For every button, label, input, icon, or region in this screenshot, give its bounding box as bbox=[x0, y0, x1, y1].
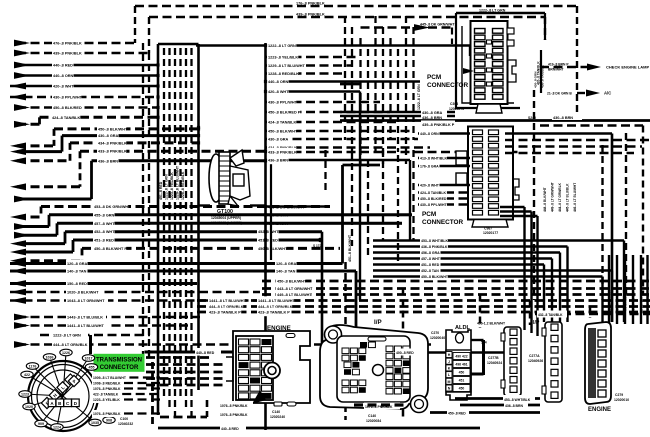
wire engine vertical 433-.8 GRN bbox=[646, 255, 648, 324]
wire 150-.8 RED bbox=[10, 282, 197, 285]
svg-text:176-.8 PNK/BLK: 176-.8 PNK/BLK bbox=[296, 2, 325, 6]
splice S172 bbox=[318, 238, 322, 242]
wire engine vertical 441-.8 RED B bbox=[624, 255, 626, 324]
svg-text:12020010: 12020010 bbox=[614, 398, 629, 402]
maze solid corner 1 bbox=[341, 165, 344, 264]
bus wire v2 bbox=[168, 48, 170, 407]
wire 457-.8 WHT lower bbox=[373, 257, 552, 259]
svg-text:424-.8 TAN/BLK: 424-.8 TAN/BLK bbox=[52, 116, 80, 120]
connector I/P block bbox=[320, 325, 428, 409]
wire vertical right drop 545 bbox=[544, 17, 546, 40]
svg-text:1017: 1017 bbox=[85, 357, 93, 361]
wire check engine lamp bbox=[540, 66, 588, 68]
bus ladder right rail bbox=[197, 44, 200, 390]
svg-text:449-.8 LT GRN/WHT: 449-.8 LT GRN/WHT bbox=[551, 182, 555, 212]
wire 445-.8 DK GRN/WHT bbox=[361, 26, 453, 29]
wire 430-.8 GRA bbox=[17, 150, 62, 153]
wire 424-.8 TAN/BLK mid bbox=[266, 121, 401, 124]
svg-text:450-.8 WHT/BLK: 450-.8 WHT/BLK bbox=[616, 288, 620, 312]
maze vertical x398 bbox=[397, 49, 399, 152]
bus second vertical bbox=[270, 150, 272, 260]
svg-text:451-.8 RED: 451-.8 RED bbox=[159, 181, 163, 200]
svg-text:423-.8 TAN/BLK P: 423-.8 TAN/BLK P bbox=[258, 311, 290, 315]
svg-text:420-.8 WHT: 420-.8 WHT bbox=[420, 184, 440, 188]
svg-text:440-.8 ORN: 440-.8 ORN bbox=[420, 132, 439, 136]
transmission spokes bbox=[50, 357, 64, 396]
wire 453-.8 WHT/BLK bottom bbox=[455, 397, 540, 400]
maze vertical x352 bbox=[351, 27, 353, 152]
wire 455 mid ext bbox=[266, 214, 413, 217]
wire 443-.8 LT GRN/WHT bundle bbox=[262, 287, 650, 290]
svg-text:1223-.8 YEL/BLK: 1223-.8 YEL/BLK bbox=[170, 172, 174, 200]
svg-text:420-.8 WHT: 420-.8 WHT bbox=[53, 85, 74, 89]
svg-text:C100: C100 bbox=[120, 417, 128, 421]
wire 140-.8 TAN bbox=[10, 270, 356, 273]
svg-text:N: N bbox=[448, 387, 451, 391]
wire 440-.8 ORN bbox=[17, 74, 158, 77]
wire 436-.8 BRN pcm bbox=[340, 115, 455, 118]
bundle drop x345 bbox=[344, 262, 347, 420]
wire 452-.8 WHT bbox=[17, 242, 65, 245]
wire 430-.8 PPL/WHT pcm2 bbox=[418, 203, 470, 205]
svg-text:451-.8 RED: 451-.8 RED bbox=[258, 239, 278, 243]
wire 450-.8 BLK/WHT lower bbox=[373, 275, 603, 277]
svg-text:C987: C987 bbox=[484, 227, 492, 231]
wire engine vertical 439-.8 PNK/BLK F bbox=[632, 255, 634, 324]
maze vertical x390.5 bbox=[389, 38, 391, 140]
svg-text:C140: C140 bbox=[368, 414, 376, 418]
svg-text:I/P: I/P bbox=[533, 320, 540, 326]
wire 1222-.8 LT GRN bottom bbox=[40, 334, 150, 337]
wire right vert x626 bbox=[625, 133, 627, 295]
svg-text:453-.8 WHT/BLK: 453-.8 WHT/BLK bbox=[504, 398, 531, 402]
wire 436-.8 BRN bbox=[17, 198, 92, 201]
svg-text:450: 450 bbox=[459, 387, 465, 391]
wire 1222 corner bbox=[469, 46, 471, 57]
transmission pin ladder diagonal bbox=[41, 397, 52, 408]
maze vertical low x413.5 bbox=[412, 150, 414, 240]
svg-text:C140: C140 bbox=[272, 410, 280, 414]
svg-text:450-.8 BLK/WHT P: 450-.8 BLK/WHT P bbox=[94, 247, 127, 251]
svg-text:496 461: 496 461 bbox=[455, 363, 467, 367]
label 1076 PNK/BLK engine 1 bbox=[219, 401, 253, 408]
svg-text:12020240: 12020240 bbox=[270, 415, 285, 419]
maze vertical x368 bbox=[367, 49, 369, 140]
svg-text:476-.8 PNK/BLK: 476-.8 PNK/BLK bbox=[53, 42, 82, 46]
svg-text:1229-.8 LT BLU/WHT: 1229-.8 LT BLU/WHT bbox=[176, 165, 180, 200]
bus wire v1 bbox=[163, 48, 165, 398]
wire pcm2 topright 0 bbox=[505, 139, 650, 141]
svg-text:1036: 1036 bbox=[46, 356, 54, 360]
wire 450-.8 RED bottom bbox=[430, 411, 540, 414]
svg-text:496-1.2 BLK/WHT: 496-1.2 BLK/WHT bbox=[477, 322, 506, 326]
maze vertical x360.5 bbox=[359, 38, 361, 164]
wire 1443-.8 LT BLU/BLK bbox=[17, 316, 200, 319]
svg-text:422: 422 bbox=[24, 373, 30, 377]
wire 1222-.8 LT GRN mid bbox=[196, 44, 470, 47]
bundle drop x590 bbox=[589, 307, 592, 319]
wire 176-.8 PNK/BLK top bbox=[135, 5, 577, 8]
label 1076 ip bbox=[364, 403, 400, 410]
wire GT100 left stub bbox=[199, 204, 211, 206]
wire engine vertical 423-.8 TAN/BLK bbox=[608, 255, 610, 324]
svg-text:450-.8 BLK/RED: 450-.8 BLK/RED bbox=[420, 197, 447, 201]
wire 451-.8 RED bbox=[17, 251, 73, 254]
svg-text:1222-.8 LT GRN: 1222-.8 LT GRN bbox=[268, 44, 296, 48]
wire 455-.8 GRN bbox=[17, 225, 49, 228]
svg-text:419-.8 BRN P: 419-.8 BRN P bbox=[548, 63, 569, 67]
wire 423-.8 TAN/BLK P bundle bbox=[197, 311, 650, 314]
svg-text:430-.8 BRN: 430-.8 BRN bbox=[553, 116, 573, 120]
svg-text:1076-.8 PNK/BLK: 1076-.8 PNK/BLK bbox=[93, 387, 121, 391]
wire 440-.8 ORN mid bbox=[266, 80, 421, 83]
svg-text:451-.8 RED: 451-.8 RED bbox=[94, 239, 114, 243]
svg-text:450-.8 BLK/RED P: 450-.8 BLK/RED P bbox=[268, 111, 301, 115]
wire 430-.8 PPL/WHT bbox=[10, 96, 158, 99]
label 1076 PNK/BLK engine 2 bbox=[219, 410, 253, 417]
maze vertical low x352 bbox=[351, 152, 353, 246]
bus ladder top bbox=[158, 43, 199, 46]
svg-text:441-.8 RED B: 441-.8 RED B bbox=[624, 292, 628, 312]
svg-text:J: J bbox=[448, 360, 450, 364]
svg-text:GT100: GT100 bbox=[217, 209, 233, 215]
wire 176-.8 GRA pcm2 bbox=[418, 165, 470, 167]
svg-text:433-.8 PNK/BLK: 433-.8 PNK/BLK bbox=[268, 151, 297, 155]
wire 1229-.8 LT BLU/WHT mid bbox=[266, 64, 353, 67]
wire pcm2 topright 2 bbox=[505, 152, 634, 154]
svg-text:420-.8 TAN/BLK: 420-.8 TAN/BLK bbox=[537, 61, 541, 85]
wire vertical right drop 577 bbox=[576, 6, 578, 120]
svg-text:PCM: PCM bbox=[427, 74, 441, 81]
svg-text:451-.8 RED: 451-.8 RED bbox=[421, 263, 440, 267]
svg-text:450-.8 BLK/WHT: 450-.8 BLK/WHT bbox=[268, 130, 298, 134]
svg-text:12020276: 12020276 bbox=[449, 107, 464, 111]
wire 436-.8 BRN bottom bbox=[460, 404, 540, 407]
svg-text:1441-.8 LT BLU/WHT: 1441-.8 LT BLU/WHT bbox=[67, 324, 105, 328]
wire thick into green box bbox=[89, 335, 92, 354]
svg-text:436-.8 BRN: 436-.8 BRN bbox=[268, 159, 288, 163]
svg-text:434-.8 GRY: 434-.8 GRY bbox=[640, 296, 644, 312]
svg-text:I/P: I/P bbox=[374, 319, 382, 326]
svg-text:436-.8 BRN: 436-.8 BRN bbox=[505, 404, 523, 408]
svg-text:120-.8 GRA: 120-.8 GRA bbox=[276, 262, 297, 266]
svg-text:452-.8 WHT: 452-.8 WHT bbox=[94, 230, 115, 234]
svg-text:439-.8 PNK/BLK F: 439-.8 PNK/BLK F bbox=[632, 286, 636, 312]
svg-text:1443-.8 LT BLU/BLK: 1443-.8 LT BLU/BLK bbox=[67, 316, 103, 320]
wire 120-.8 GRA bbox=[10, 262, 343, 265]
bus wire v5 bbox=[185, 48, 187, 407]
connector transmission circle bbox=[28, 361, 98, 431]
bus wire v3 bbox=[174, 48, 176, 416]
bundle drop x480 bbox=[479, 295, 482, 329]
svg-text:450: 450 bbox=[459, 371, 465, 375]
svg-text:439-.8 PNK/BLK: 439-.8 PNK/BLK bbox=[296, 13, 325, 17]
svg-text:422-.8 TAN/BLK: 422-.8 TAN/BLK bbox=[93, 393, 119, 397]
bus wire v150 bbox=[148, 53, 150, 360]
svg-text:445-.8 DK GRN/WHT: 445-.8 DK GRN/WHT bbox=[420, 23, 455, 27]
svg-text:457-.8 WHT: 457-.8 WHT bbox=[94, 222, 115, 226]
wire vertical left drop 1 bbox=[134, 6, 136, 43]
svg-text:457-.8 WHT: 457-.8 WHT bbox=[421, 257, 441, 261]
wire 420-.8 WHT pcm2 bbox=[418, 184, 470, 186]
svg-text:12040232: 12040232 bbox=[118, 422, 133, 426]
svg-text:12045005 (LOWER): 12045005 (LOWER) bbox=[211, 221, 242, 225]
svg-text:455: 455 bbox=[89, 366, 95, 370]
wire 430-.8 GRA pcm bbox=[340, 111, 455, 114]
maze vertical x406 bbox=[405, 16, 407, 164]
maze vertical x375.5 bbox=[374, 16, 376, 152]
svg-text:1043-.8 LT GRN/WHT: 1043-.8 LT GRN/WHT bbox=[67, 299, 105, 303]
svg-text:430-.8 GRA: 430-.8 GRA bbox=[98, 134, 119, 138]
svg-text:450-.8 BLK/WHT: 450-.8 BLK/WHT bbox=[277, 280, 307, 284]
highlight transmission connector bbox=[94, 354, 145, 372]
wire engine vertical 434-.8 GRY bbox=[640, 255, 642, 324]
svg-text:444-.8 LT GRN/BLK: 444-.8 LT GRN/BLK bbox=[558, 182, 562, 212]
svg-text:12020177: 12020177 bbox=[483, 231, 498, 235]
svg-text:1223-.8 YEL/BLK: 1223-.8 YEL/BLK bbox=[93, 398, 120, 402]
connector PCM1 body bbox=[456, 13, 520, 108]
svg-text:1229-.8 LT BLU/WHT: 1229-.8 LT BLU/WHT bbox=[268, 64, 306, 68]
svg-text:440-.8 ORN: 440-.8 ORN bbox=[268, 80, 289, 84]
svg-text:CONNECTOR: CONNECTOR bbox=[427, 82, 468, 89]
wire 450-.8 BLK/RED bbox=[17, 106, 158, 109]
svg-text:C270: C270 bbox=[431, 331, 439, 335]
wire 1020-.8 BLK/WHT bbox=[10, 291, 260, 294]
svg-text:ENGINE: ENGINE bbox=[267, 325, 291, 332]
ip bottom thick dashes bbox=[354, 403, 404, 406]
svg-text:440-.8 RED: 440-.8 RED bbox=[53, 64, 73, 68]
svg-text:12040926: 12040926 bbox=[528, 359, 543, 363]
wire 450-.8 BLK/WHT mid bbox=[266, 130, 411, 133]
wire 434-.8 PNK/BLK mid bbox=[266, 146, 431, 149]
svg-text:457-.8 WHT: 457-.8 WHT bbox=[268, 222, 289, 226]
svg-text:453-.8 DK GRN/WHT: 453-.8 DK GRN/WHT bbox=[94, 205, 131, 209]
svg-text:430-.8 PPL/WHT: 430-.8 PPL/WHT bbox=[268, 101, 298, 105]
bus wire v4 bbox=[179, 48, 181, 398]
connector C277B bbox=[504, 327, 521, 396]
wire 439-.8 PNK/BLK bbox=[17, 52, 149, 55]
wire 420-.8 WHT bbox=[10, 85, 158, 88]
wire 424-.8 TAN/BLK bbox=[17, 123, 40, 126]
bundle drop x403 bbox=[402, 289, 405, 421]
wires into engine left bbox=[146, 363, 226, 366]
wire 420-.8 WHT mid bbox=[266, 90, 361, 93]
wire 1441-.8 LT BLU/WHT bbox=[17, 324, 190, 327]
wire pcm2 topright 1 bbox=[505, 145, 642, 147]
wire right vert x643 bbox=[642, 126, 644, 296]
wire 440-.8 ORN pcm2 bbox=[418, 132, 470, 134]
wire 440-.8 RED to engine bbox=[145, 351, 245, 354]
svg-text:1076-.8 PNK/BLK: 1076-.8 PNK/BLK bbox=[220, 404, 248, 408]
wire 436 BRN corner bbox=[409, 160, 411, 240]
svg-text:909: 909 bbox=[38, 422, 44, 426]
maze vertical x325 bbox=[324, 150, 326, 192]
transmission oval callouts bbox=[43, 354, 55, 361]
wire 436-.8 PNK/BLK lower bbox=[373, 245, 568, 247]
svg-text:C277B: C277B bbox=[488, 356, 499, 360]
svg-text:450-.8 RED: 450-.8 RED bbox=[448, 412, 466, 416]
svg-text:450-.8 BLK/WHT: 450-.8 BLK/WHT bbox=[258, 247, 288, 251]
svg-text:H: H bbox=[448, 353, 451, 357]
wire 453-.8 WHT/BLK lower bbox=[373, 239, 624, 241]
svg-text:CONNECTOR: CONNECTOR bbox=[422, 219, 463, 226]
svg-text:12020084: 12020084 bbox=[366, 419, 381, 423]
wire aldl thick L bbox=[482, 340, 485, 375]
wire 4xx TAN/BLK bottomright bbox=[535, 313, 650, 315]
svg-text:453-.8 DK GRN/WHT: 453-.8 DK GRN/WHT bbox=[268, 206, 305, 210]
svg-text:413-.8 WHT/BLK: 413-.8 WHT/BLK bbox=[420, 157, 448, 161]
wire 1441-.8 LT BLU/WHT bundle bbox=[197, 299, 650, 302]
junction dots bbox=[156, 63, 159, 66]
wire 433-.8 PNK/BLK mid bbox=[266, 151, 521, 154]
svg-text:430-.8 PPL/WHT: 430-.8 PPL/WHT bbox=[53, 96, 83, 100]
svg-text:439-.8 PNK/BLK P: 439-.8 PNK/BLK P bbox=[422, 123, 455, 127]
svg-text:1020: 1020 bbox=[25, 405, 33, 409]
wire 1223-.8 YEL/BLK mid bbox=[266, 56, 361, 59]
svg-text:908: 908 bbox=[106, 419, 112, 423]
bus ladder left rail bbox=[157, 44, 160, 415]
svg-text:430-.8 PPL/WHT: 430-.8 PPL/WHT bbox=[420, 203, 448, 207]
svg-text:455-.8 GRN: 455-.8 GRN bbox=[94, 213, 115, 217]
wire A/C bbox=[577, 92, 585, 94]
svg-text:S 172: S 172 bbox=[313, 244, 322, 248]
wire GT100 right stub bbox=[250, 204, 266, 206]
svg-text:433-.8 GRN: 433-.8 GRN bbox=[646, 296, 650, 312]
wire 450-.8 BLK/RED P mid bbox=[266, 111, 391, 114]
maze vertical low x398 bbox=[397, 155, 399, 262]
svg-text:1076-.8 PNK/BLK: 1076-.8 PNK/BLK bbox=[220, 413, 248, 417]
svg-text:436-.8 BRN: 436-.8 BRN bbox=[98, 159, 118, 163]
svg-text:434-.8 PNK/BLK: 434-.8 PNK/BLK bbox=[98, 141, 127, 145]
connector ENGINE block bbox=[233, 331, 310, 403]
wire 456-.8 GRA lower bbox=[373, 251, 560, 253]
wire 457 mid ext bbox=[266, 222, 403, 225]
svg-text:432-.8 TAN/BLK: 432-.8 TAN/BLK bbox=[538, 313, 563, 317]
wire 444-.8 LT GRN/BLK bundle bbox=[197, 305, 650, 308]
wire y357 dashed row bbox=[146, 356, 210, 359]
wire 439-.8 PNK/BLK P bbox=[340, 119, 650, 122]
svg-text:453-.8 WHT/BLK: 453-.8 WHT/BLK bbox=[421, 239, 449, 243]
svg-text:12045004 (UPPER): 12045004 (UPPER) bbox=[211, 216, 241, 220]
maze vertical low x383 bbox=[382, 150, 384, 240]
svg-text:440-.8 ORN: 440-.8 ORN bbox=[53, 74, 74, 78]
wire right vert x602 bbox=[601, 145, 603, 300]
svg-text:440-.8 RED: 440-.8 RED bbox=[221, 427, 239, 431]
wire 434-.8 PNK/BLK bbox=[17, 159, 70, 162]
connector C277A bbox=[545, 322, 562, 402]
svg-text:1222-.8 LT GRN: 1222-.8 LT GRN bbox=[53, 334, 81, 338]
svg-text:1228-.8 RED/BLK: 1228-.8 RED/BLK bbox=[181, 171, 185, 200]
svg-text:150-.8 RED: 150-.8 RED bbox=[67, 282, 87, 286]
svg-text:450-.8 BLK/RED: 450-.8 BLK/RED bbox=[53, 106, 82, 110]
maze vertical x413.5 bbox=[412, 27, 414, 140]
wire engine vertical 450-.8 WHT/BLK bbox=[616, 255, 618, 324]
svg-text:448-.8 BLK/WHT: 448-.8 BLK/WHT bbox=[543, 187, 547, 212]
svg-text:423-.8 TAN/BLK P: 423-.8 TAN/BLK P bbox=[209, 311, 241, 315]
svg-text:1035: 1035 bbox=[91, 421, 99, 425]
wire 1222 top loop pcm1 bbox=[456, 12, 545, 14]
svg-text:444-.8 LT GRN/BLK: 444-.8 LT GRN/BLK bbox=[53, 343, 88, 347]
svg-text:CHECK ENGINE LAMP: CHECK ENGINE LAMP bbox=[606, 65, 649, 70]
svg-text:450-.8 BLK/WHT: 450-.8 BLK/WHT bbox=[421, 275, 449, 279]
wire 450-.8 BLK/WHT bbox=[17, 144, 54, 147]
wire 430-.8 GRA mid bbox=[266, 138, 419, 141]
svg-text:BRN/WHT: BRN/WHT bbox=[548, 68, 564, 72]
svg-text:ENGINE: ENGINE bbox=[588, 407, 611, 413]
svg-text:440-.8 RED: 440-.8 RED bbox=[196, 351, 215, 355]
svg-text:1223: 1223 bbox=[21, 393, 29, 397]
transmission wire labels bbox=[92, 374, 126, 381]
svg-text:423-.8 TAN/BLK: 423-.8 TAN/BLK bbox=[608, 289, 612, 312]
wire 450-.8 BLK/WHT bundle bbox=[262, 280, 650, 283]
wire 449-.8 LT BLU/WHT bundle bbox=[262, 293, 650, 296]
svg-text:436-.8 PNK/BLK: 436-.8 PNK/BLK bbox=[421, 245, 448, 249]
maze vertical low x368 bbox=[367, 160, 369, 258]
svg-text:1176: 1176 bbox=[29, 365, 37, 369]
wire 1228-.8 RED/BLK mid bbox=[266, 72, 346, 75]
wire 440-.8 RED bbox=[17, 64, 158, 67]
svg-text:M: M bbox=[448, 380, 451, 384]
svg-text:1226: 1226 bbox=[62, 351, 70, 355]
connector ENGINE right bbox=[585, 322, 611, 404]
wire pcm2 topright solid bbox=[505, 132, 612, 135]
svg-text:455-.8 GRN: 455-.8 GRN bbox=[268, 214, 289, 218]
svg-text:1020-.8 BLK/WHT: 1020-.8 BLK/WHT bbox=[67, 291, 99, 295]
wire 444-.8 LT GRN/BLK bbox=[17, 343, 435, 346]
connector ALDL bbox=[446, 330, 471, 400]
svg-text:450-.8 BLK/WHT: 450-.8 BLK/WHT bbox=[98, 127, 128, 131]
svg-text:21-.8 DK GRN B: 21-.8 DK GRN B bbox=[547, 92, 572, 96]
svg-text:1228-.8 RED/BLK: 1228-.8 RED/BLK bbox=[268, 72, 299, 76]
svg-text:1222-.8 LT GRN: 1222-.8 LT GRN bbox=[417, 84, 421, 110]
svg-text:K: K bbox=[448, 367, 451, 371]
maze solid corner 3 bbox=[355, 271, 358, 328]
wire 400-.8 RED ip bbox=[428, 351, 446, 354]
wire arrow into PCM1 bbox=[463, 68, 474, 74]
bus corner bottom to 440RED bbox=[151, 362, 154, 428]
wire arrow up into engine bbox=[252, 390, 266, 404]
transmission pin row ABCD bbox=[48, 399, 56, 407]
bus main vertical bbox=[264, 43, 267, 430]
wire 457-.8 WHT bbox=[17, 234, 57, 237]
wire 420 WHT corner bbox=[359, 92, 361, 301]
wire 413-.8 WHT/BLK pcm2 bbox=[418, 157, 470, 159]
svg-text:430-.8 GRA: 430-.8 GRA bbox=[268, 138, 289, 142]
svg-text:120-.8 GRA: 120-.8 GRA bbox=[67, 262, 88, 266]
wire 430-.8 PPL/WHT mid bbox=[266, 101, 381, 104]
wire 450-.8 BLK/WHT P bbox=[17, 259, 82, 262]
wire y417 dashed + drop bbox=[160, 416, 207, 419]
wire dashed vertical x534 bbox=[533, 90, 535, 300]
svg-text:140-.8 TAN: 140-.8 TAN bbox=[67, 270, 87, 274]
connector GT100 symbol bbox=[209, 154, 223, 202]
wire 476-.8 PNK/BLK bbox=[17, 42, 135, 45]
maze vertical x345 bbox=[344, 16, 346, 140]
svg-text:1076-.8 PNK/BLK: 1076-.8 PNK/BLK bbox=[93, 412, 121, 416]
svg-text:420-.8 WHT: 420-.8 WHT bbox=[268, 90, 289, 94]
svg-text:446-.8 LT BLU/WHT: 446-.8 LT BLU/WHT bbox=[573, 183, 577, 212]
svg-text:1222-.8 LT GRN: 1222-.8 LT GRN bbox=[165, 174, 169, 200]
svg-text:12040924: 12040924 bbox=[487, 361, 502, 365]
wire right dash y125 bbox=[540, 124, 643, 126]
svg-text:451: 451 bbox=[459, 379, 465, 383]
svg-text:TRANSMISSION: TRANSMISSION bbox=[96, 358, 142, 364]
svg-text:439-.8 PNK/BLK: 439-.8 PNK/BLK bbox=[53, 52, 82, 56]
svg-text:1224: 1224 bbox=[53, 426, 61, 430]
wire 433-.8 PNK/BLK bbox=[17, 185, 80, 188]
svg-text:C398: C398 bbox=[450, 102, 458, 106]
svg-text:452-.8 TAN: 452-.8 TAN bbox=[421, 269, 439, 273]
